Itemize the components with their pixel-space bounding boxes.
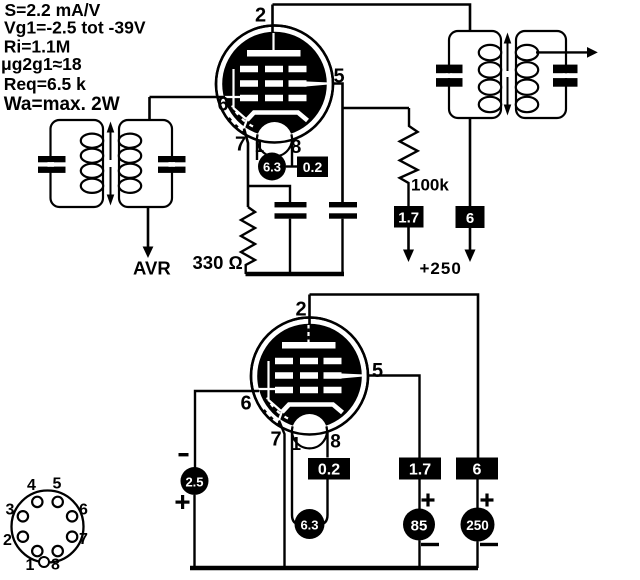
svg-text:1: 1 [26, 557, 35, 574]
IF transformer T2 primary [449, 31, 501, 118]
wire 250 to rail [476, 542, 478, 569]
wire pin2 V2 to rail [308, 295, 311, 325]
svg-text:2: 2 [295, 299, 306, 321]
plus sign 85 [422, 498, 435, 501]
wire pin7 V1 [244, 129, 248, 208]
wire pin5 V2 [368, 376, 420, 458]
svg-text:8: 8 [291, 137, 302, 158]
tube V1 [216, 26, 333, 158]
wire pin5 branch to 100k [343, 107, 410, 110]
plus sign 2.5 [176, 501, 190, 504]
svg-text:1: 1 [291, 434, 301, 454]
svg-text:Req=6.5 k: Req=6.5 k [4, 74, 86, 94]
meter 250 anode volts [461, 508, 495, 542]
wire pin6 V1 [150, 96, 226, 99]
svg-text:2: 2 [255, 5, 266, 27]
wire T1 secondary to grid [148, 97, 151, 120]
arrow supply 1.7 [403, 250, 414, 263]
svg-text:AVR: AVR [133, 258, 171, 279]
svg-text:100k: 100k [411, 176, 449, 195]
IF transformer T1 secondary [119, 120, 172, 207]
svg-text:8: 8 [330, 432, 341, 453]
wire 2.5 to rail [193, 495, 195, 568]
capacitor C3 cathode bypass [275, 202, 307, 207]
label box 0.2 heater amps V1 [297, 157, 328, 178]
svg-text:2.5: 2.5 [185, 475, 203, 490]
svg-text:1: 1 [255, 137, 264, 156]
coil L4 [516, 45, 538, 112]
plus sign 250 [481, 498, 494, 501]
wire anode lead dashes V2 [307, 329, 310, 340]
wire 85 to rail [418, 541, 420, 569]
coil L2 [119, 134, 141, 193]
svg-text:8: 8 [51, 557, 60, 574]
socket key notch [39, 557, 49, 567]
svg-text:7: 7 [79, 531, 88, 548]
svg-text:5: 5 [372, 360, 383, 382]
wire 1.7 box to 85 meter [418, 480, 420, 510]
svg-text:7: 7 [235, 134, 246, 156]
meter 6.3 V2 [295, 509, 325, 539]
arrow supply 6 [465, 250, 476, 263]
label box 1.7 bottom [399, 458, 441, 480]
socket pin 8 [53, 546, 63, 556]
wire T2 primary bottom to 6 box [469, 118, 472, 206]
label box 6 anode current [456, 206, 485, 228]
svg-text:0.2: 0.2 [318, 462, 340, 479]
ground rail bottom circuit [190, 566, 478, 570]
wire pin7 V2 to rail [279, 421, 285, 569]
arrow AVR [143, 247, 154, 259]
wire meter link V1 [286, 165, 297, 167]
svg-text:Wa=max. 2W: Wa=max. 2W [4, 94, 120, 115]
svg-text:330 Ω: 330 Ω [193, 252, 243, 273]
minus sign 2.5 [179, 453, 189, 456]
svg-text:0.2: 0.2 [303, 159, 323, 175]
wire heater leg pin1 V2 [292, 431, 301, 525]
capacitor C4 screen bypass [329, 202, 357, 207]
wire below 6 box [469, 228, 472, 250]
coil L3 [479, 45, 501, 112]
wire heater leg pin8 V1 [291, 139, 293, 167]
meter 6.3 heater volts V1 [258, 153, 286, 181]
arrow output [587, 47, 598, 58]
minus sign 250 [480, 543, 498, 546]
socket pin 4 [32, 497, 42, 507]
resistor R1 330 ohm [241, 207, 255, 274]
capacitor C6 [553, 65, 578, 74]
capacitor C2 [158, 156, 186, 162]
IF transformer T2 secondary [516, 31, 566, 118]
coupling arrow T1 [107, 122, 115, 206]
wire anode rail bottom [310, 295, 479, 458]
meter 2.5 grid bias [181, 467, 209, 495]
svg-text:85: 85 [411, 518, 428, 535]
coupling arrow T2 [504, 33, 512, 116]
socket pin 2 [18, 532, 28, 542]
svg-text:Vg1=-2.5 tot -39V: Vg1=-2.5 tot -39V [4, 18, 146, 38]
wire pin6 V2 [195, 391, 259, 468]
socket pin 1 [32, 546, 42, 556]
svg-text:6: 6 [240, 393, 251, 415]
svg-text:6: 6 [466, 210, 474, 227]
socket pin 5 [53, 497, 63, 507]
label box 1.7 screen current [394, 206, 424, 228]
capacitor C5 [436, 65, 463, 74]
IF transformer T1 primary [51, 120, 104, 207]
meter 85 screen volts [403, 509, 435, 541]
wire pin2 V1 to top rail [271, 5, 274, 33]
wire AVR lead [147, 207, 150, 247]
svg-text:+250: +250 [420, 259, 462, 278]
wire heater leg pin1 V1 [256, 139, 258, 160]
svg-text:4: 4 [27, 477, 36, 494]
label box 6 bottom [456, 458, 498, 480]
svg-text:1.7: 1.7 [398, 210, 419, 227]
svg-text:μg2g1≈18: μg2g1≈18 [1, 54, 82, 74]
socket pin 3 [18, 511, 28, 521]
wire cathode branch [248, 186, 290, 203]
socket base view [12, 491, 84, 563]
svg-text:6: 6 [217, 94, 228, 116]
svg-text:2: 2 [3, 532, 12, 549]
svg-text:250: 250 [466, 518, 489, 533]
svg-text:1.7: 1.7 [409, 462, 431, 479]
wire top rail [273, 5, 471, 32]
wire 6 box to 250 meter [476, 480, 478, 509]
wire below 1.7 box [407, 228, 410, 251]
label box 0.2 [308, 458, 350, 480]
socket pin 6 [67, 511, 77, 521]
socket pin 7 [67, 532, 77, 542]
svg-text:3: 3 [6, 502, 15, 519]
svg-text:6: 6 [79, 502, 88, 519]
svg-text:6.3: 6.3 [300, 518, 318, 533]
coil L1 [81, 134, 103, 193]
svg-text:7: 7 [270, 429, 281, 451]
resistor R2 100k [400, 108, 418, 206]
tube V2 [251, 318, 368, 450]
svg-text:6.3: 6.3 [263, 160, 281, 175]
svg-text:5: 5 [333, 66, 344, 88]
svg-text:6: 6 [473, 462, 482, 479]
wire heater leg pin8 V2 [319, 431, 328, 525]
wire pin5 V1 [333, 84, 343, 203]
ground rail top circuit [246, 272, 345, 277]
capacitor C1 [38, 156, 66, 162]
minus sign 85 [421, 543, 439, 546]
wire output tap [536, 51, 588, 53]
svg-text:5: 5 [53, 476, 62, 493]
